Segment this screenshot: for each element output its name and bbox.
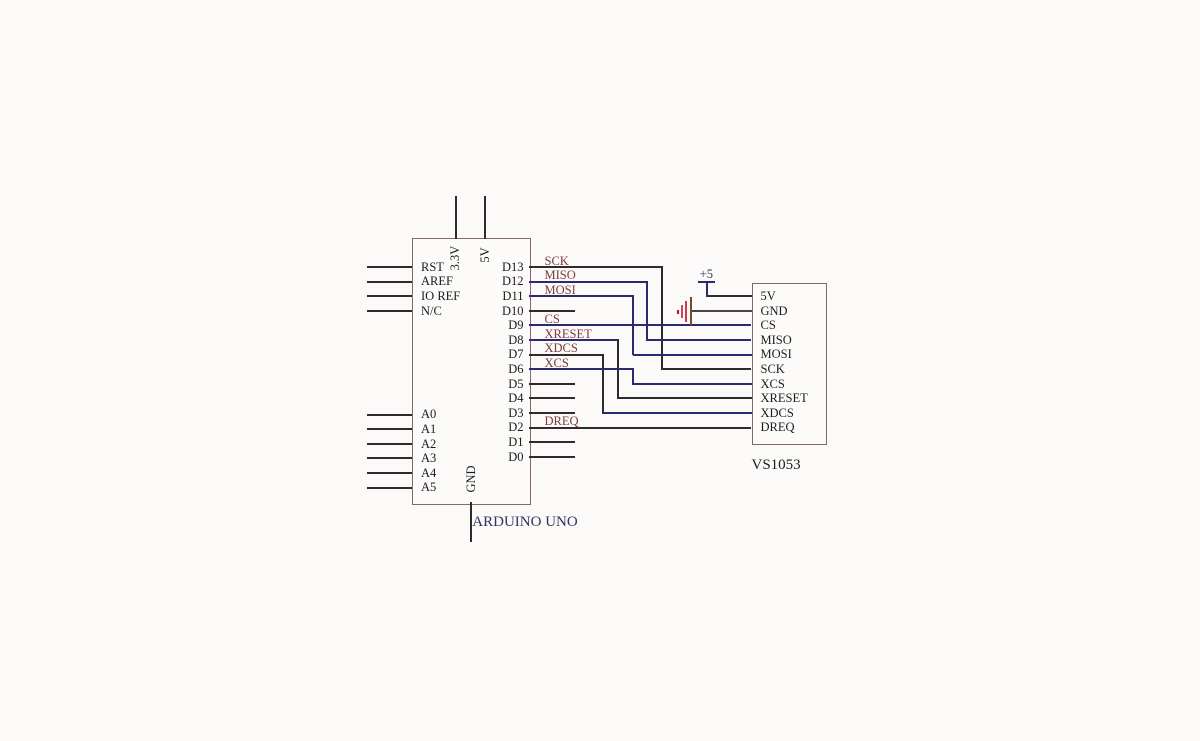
net label MISO — [545, 268, 576, 282]
wire MISO: D12 horizontal — [529, 281, 648, 283]
pin label A3 — [421, 451, 436, 465]
wire CS: D9 to VS1053 CS pin — [529, 324, 751, 326]
wire ground to VS1053 GND pin — [692, 310, 752, 312]
Arduino pin D10 stub wire — [529, 310, 575, 312]
Arduino pin 3.3V (top) — [455, 196, 457, 239]
rotated pin label 5V — [478, 233, 492, 277]
pin label D1 — [472, 435, 524, 449]
ground bar 3 — [681, 305, 683, 318]
wire MOSI: vertical — [632, 295, 634, 355]
pin label A5 — [421, 480, 436, 494]
power +5 bar — [698, 281, 715, 283]
ground bar 4 (dash) — [677, 310, 679, 314]
pin label D6 — [472, 362, 524, 376]
pin label RST — [421, 260, 444, 274]
wire XDCS: D7 horizontal — [529, 354, 604, 356]
wire XCS: vertical — [632, 368, 634, 385]
pin label D5 — [472, 377, 524, 391]
wire XRESET: vertical — [617, 339, 619, 399]
Arduino pin IO REF wire — [367, 295, 412, 297]
net label XDCS — [545, 341, 578, 355]
wire SCK: vertical — [661, 266, 663, 370]
net label MOSI — [545, 283, 576, 297]
rotated pin label GND — [464, 457, 478, 501]
Arduino pin N/C wire — [367, 310, 412, 312]
power +5 label — [694, 267, 718, 281]
net label XRESET — [545, 327, 592, 341]
VS1053 pin label XDCS — [761, 406, 794, 420]
wire SCK: into VS1053 SCK pin — [662, 368, 751, 370]
pin label D13 — [472, 260, 524, 274]
wire +5 to VS1053 5V pin — [707, 295, 752, 297]
VS1053 pin label GND — [761, 304, 788, 318]
Arduino pin RST wire — [367, 266, 412, 268]
Arduino UNO body — [412, 238, 531, 505]
VS1053 pin label XCS — [761, 377, 785, 391]
VS1053 pin label CS — [761, 318, 776, 332]
rotated pin label 3.3V — [448, 236, 462, 280]
wire SCK: D13 horizontal — [529, 266, 663, 268]
VS1053 pin label MISO — [761, 333, 792, 347]
wire XDCS: vertical — [602, 354, 604, 414]
wire XRESET: D8 horizontal — [529, 339, 619, 341]
wire XCS: into VS1053 XCS pin — [633, 383, 752, 385]
pin label D10 — [472, 304, 524, 318]
VS1053 pin label 5V — [761, 289, 776, 303]
pin label A1 — [421, 422, 436, 436]
Arduino pin D3 stub wire — [529, 412, 575, 414]
pin label D9 — [472, 318, 524, 332]
VS1053 pin label XRESET — [761, 391, 808, 405]
pin label D2 — [472, 420, 524, 434]
Arduino pin A3 wire — [367, 457, 412, 459]
Arduino pin D0 stub wire — [529, 456, 575, 458]
pin label D11 — [472, 289, 524, 303]
wire MISO: into VS1053 MISO pin — [647, 339, 751, 341]
Arduino pin D4 stub wire — [529, 397, 575, 399]
pin label A4 — [421, 466, 436, 480]
pin label D4 — [472, 391, 524, 405]
pin label A0 — [421, 407, 436, 421]
net label XCS — [545, 356, 569, 370]
net label DREQ — [545, 414, 579, 428]
VS1053 pin label DREQ — [761, 420, 795, 434]
Arduino pin 5V (top) — [484, 196, 486, 239]
ground bar 2 — [685, 301, 687, 322]
pin label N/C — [421, 304, 442, 318]
Arduino pin A2 wire — [367, 443, 412, 445]
pin label D7 — [472, 347, 524, 361]
pin label IO REF — [421, 289, 460, 303]
Arduino pin D1 stub wire — [529, 441, 575, 443]
wire MOSI: D11 horizontal — [529, 295, 634, 297]
Arduino pin A0 wire — [367, 414, 412, 416]
wire XCS: D6 horizontal — [529, 368, 634, 370]
net label SCK — [545, 254, 569, 268]
wire MISO: vertical — [646, 281, 648, 341]
pin label A2 — [421, 437, 436, 451]
Arduino pin A4 wire — [367, 472, 412, 474]
VS1053 pin label MOSI — [761, 347, 792, 361]
Arduino pin A1 wire — [367, 428, 412, 430]
Arduino pin AREF wire — [367, 281, 412, 283]
pin label D0 — [472, 450, 524, 464]
ground bar 1 — [690, 297, 692, 325]
Arduino pin A5 wire — [367, 487, 412, 489]
wire XDCS: into VS1053 XDCS pin — [603, 412, 752, 414]
pin label D3 — [472, 406, 524, 420]
net label CS — [545, 312, 560, 326]
VS1053 pin label SCK — [761, 362, 785, 376]
title ARDUINO UNO — [472, 515, 577, 529]
wire XRESET: into VS1053 XRESET pin — [618, 397, 752, 399]
wire MOSI: into VS1053 MOSI pin — [633, 354, 752, 356]
Arduino pin GND (bottom) — [470, 502, 472, 542]
VS1053 body — [752, 283, 827, 445]
power +5 lead — [706, 281, 708, 297]
pin label D8 — [472, 333, 524, 347]
wire DREQ: D2 to VS1053 DREQ pin — [529, 427, 751, 429]
pin label AREF — [421, 274, 453, 288]
title VS1053 — [752, 458, 801, 472]
pin label D12 — [472, 274, 524, 288]
Arduino pin D5 stub wire — [529, 383, 575, 385]
